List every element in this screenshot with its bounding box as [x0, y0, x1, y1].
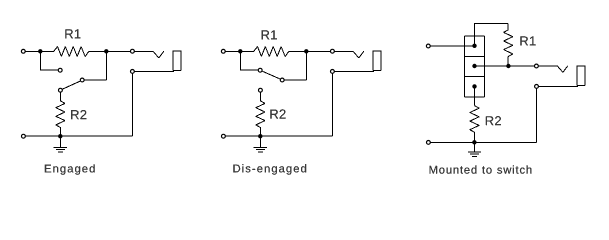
switch blade	[63, 81, 81, 89]
ground	[254, 136, 267, 152]
junction dot A	[238, 49, 242, 53]
label R1 circuit 3	[520, 36, 535, 45]
wire jack sleeve	[332, 70, 374, 72]
caption Dis-engaged	[233, 164, 306, 174]
node switch contact M	[80, 78, 84, 82]
node switch contact M	[280, 78, 284, 82]
wire R1 to jack tip contact	[89, 50, 153, 52]
node sleeve terminal	[131, 70, 135, 74]
wire sleeve down to ground rail	[223, 71, 332, 136]
wire node A down to switch contact L	[40, 51, 58, 70]
switch body box	[465, 36, 485, 97]
node R2 top	[59, 88, 63, 92]
jack plug body	[373, 51, 381, 71]
junction dot ground	[58, 134, 62, 138]
junction dot B	[304, 49, 308, 53]
jack plug body	[577, 66, 585, 86]
label R1 circuit 1	[65, 29, 80, 38]
node ground terminal	[427, 141, 431, 145]
jack tip spring	[353, 51, 364, 58]
wire jack sleeve	[132, 70, 174, 72]
node ground terminal	[22, 134, 26, 138]
wire sleeve down to ground rail	[428, 86, 536, 142]
node ground terminal	[222, 134, 226, 138]
label R2 circuit 2	[270, 109, 285, 118]
junction dot R1 bottom	[506, 64, 510, 68]
ground	[468, 142, 481, 156]
node input terminal	[21, 49, 25, 53]
wire node B down to switch contact M	[84, 51, 106, 80]
wire input to R1	[223, 50, 254, 52]
resistor R1	[54, 47, 89, 57]
label R2 circuit 1	[71, 110, 86, 119]
wire pole 1 up and over to R1	[475, 23, 509, 46]
resistor R1	[254, 47, 289, 57]
resistor R1	[504, 23, 513, 66]
label R1 circuit 2	[262, 30, 277, 39]
resistor R2	[56, 92, 65, 136]
node output terminal	[331, 49, 335, 53]
wire jack sleeve	[537, 85, 578, 87]
node sleeve terminal	[535, 85, 539, 89]
node input terminal	[426, 44, 430, 48]
junction dot B	[104, 49, 108, 53]
wire input to pole 1	[428, 45, 474, 47]
caption Mounted to switch	[430, 165, 532, 173]
wire pole 3 down to R2	[474, 86, 476, 105]
caption Engaged	[45, 164, 95, 174]
pole dot 2	[472, 64, 476, 68]
wire R1 to jack tip contact	[289, 50, 353, 52]
wire node A down to switch contact L	[240, 51, 258, 70]
label R2 circuit 3	[486, 116, 501, 125]
node sleeve terminal	[331, 70, 335, 74]
wire pole 2 to jack tip contact	[475, 65, 558, 67]
junction dot ground	[472, 140, 476, 144]
wire sleeve down to ground rail	[23, 71, 132, 136]
jack tip spring	[153, 51, 164, 58]
node output terminal	[131, 49, 135, 53]
jack plug body	[173, 51, 181, 71]
pole dot 1	[472, 44, 476, 48]
node R2 top	[259, 88, 263, 92]
node output terminal	[535, 64, 539, 68]
node input terminal	[221, 49, 225, 53]
jack tip spring	[557, 66, 567, 72]
ground	[54, 136, 67, 152]
junction dot ground	[258, 134, 262, 138]
junction dot A	[38, 49, 42, 53]
wire input to R1	[23, 50, 54, 52]
resistor R2	[256, 92, 265, 136]
pole dot 3	[472, 84, 476, 88]
node switch contact L	[258, 68, 262, 72]
wire node B down to switch contact M	[284, 51, 306, 80]
resistor R2	[470, 106, 479, 143]
switch blade	[262, 71, 280, 79]
node switch contact L	[58, 68, 62, 72]
